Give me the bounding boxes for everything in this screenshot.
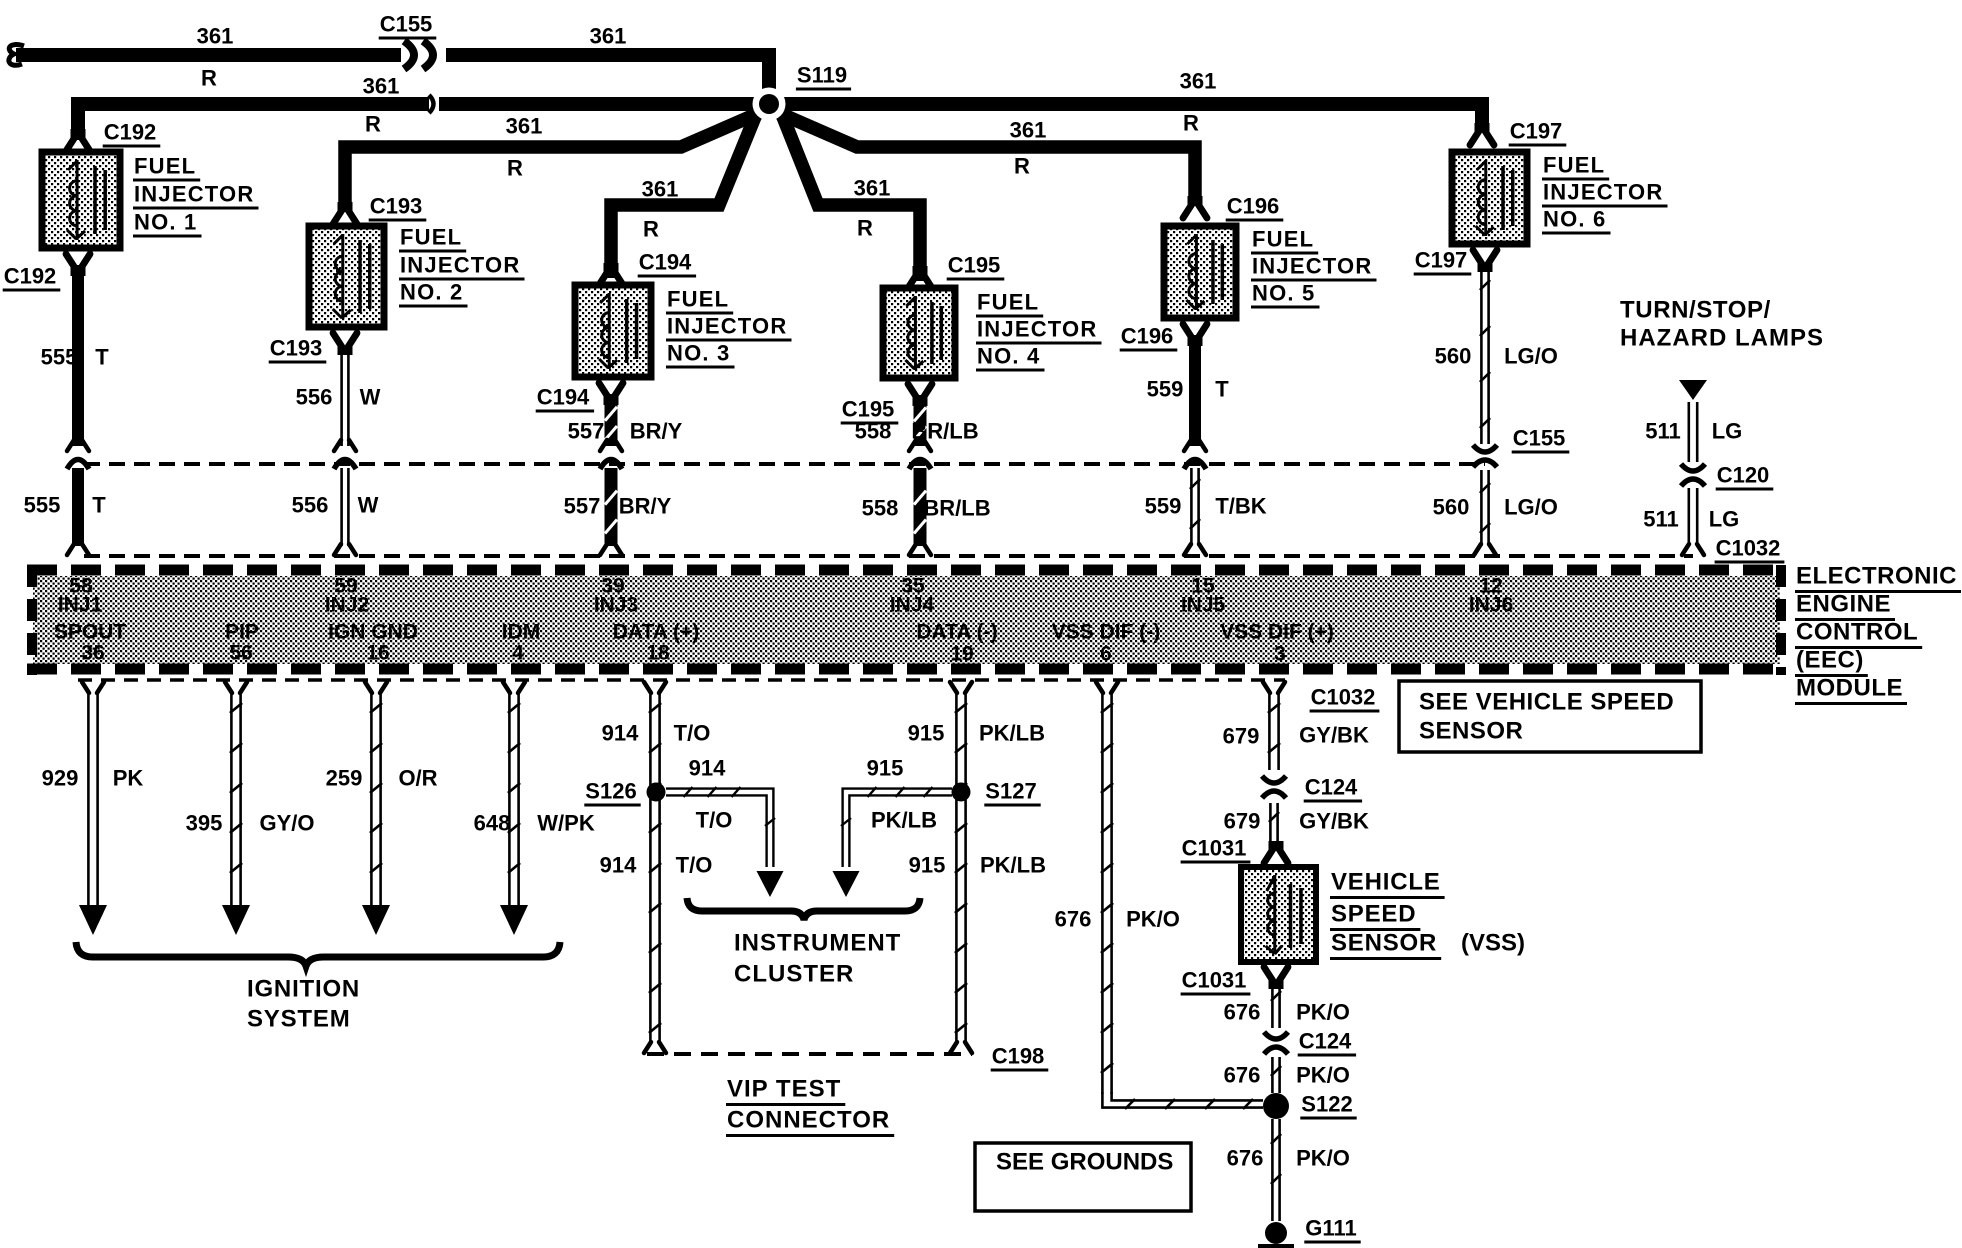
svg-text:TURN/STOP/: TURN/STOP/ [1620,297,1771,324]
svg-text:C198: C198 [992,1044,1045,1069]
svg-text:C192: C192 [4,264,57,289]
svg-text:SEE GROUNDS: SEE GROUNDS [996,1149,1173,1176]
svg-text:BR/LB: BR/LB [923,496,990,521]
svg-text:676: 676 [1224,1000,1261,1025]
svg-text:PK: PK [113,766,144,791]
svg-text:FUEL: FUEL [1543,153,1605,178]
svg-text:SPEED: SPEED [1331,901,1416,928]
svg-text:CLUSTER: CLUSTER [734,961,854,988]
svg-text:DATA (-): DATA (-) [916,621,997,644]
svg-text:R: R [643,217,659,242]
svg-text:915: 915 [908,721,945,746]
svg-text:IGNITION: IGNITION [247,976,360,1003]
svg-text:556: 556 [292,493,329,518]
svg-text:C193: C193 [370,194,423,219]
svg-text:INJ2: INJ2 [325,594,369,617]
svg-text:C197: C197 [1415,248,1468,273]
svg-text:NO. 4: NO. 4 [977,344,1040,369]
svg-text:555: 555 [24,493,61,518]
svg-text:PK/LB: PK/LB [979,721,1045,746]
svg-text:FUEL: FUEL [1252,227,1314,252]
svg-text:LG: LG [1712,419,1743,444]
svg-text:555: 555 [41,345,78,370]
svg-text:C1032: C1032 [1311,685,1376,710]
svg-text:56: 56 [229,642,252,665]
svg-text:VEHICLE: VEHICLE [1331,869,1441,896]
svg-text:S127: S127 [985,779,1036,804]
svg-text:6: 6 [1100,643,1112,666]
svg-text:361: 361 [1180,69,1217,94]
svg-text:676: 676 [1227,1146,1264,1171]
svg-text:259: 259 [326,766,363,791]
svg-text:559: 559 [1145,494,1182,519]
svg-text:W/PK: W/PK [537,811,595,836]
svg-text:560: 560 [1433,495,1470,520]
svg-text:361: 361 [363,74,400,99]
svg-text:679: 679 [1223,724,1260,749]
svg-text:LG/O: LG/O [1504,344,1558,369]
svg-text:C1032: C1032 [1716,536,1781,561]
svg-text:560: 560 [1435,344,1472,369]
svg-text:361: 361 [854,176,891,201]
svg-text:PIP: PIP [225,621,259,644]
svg-text:SPOUT: SPOUT [54,621,127,644]
svg-text:R: R [1014,154,1030,179]
svg-text:T/BK: T/BK [1215,494,1266,519]
svg-text:395: 395 [186,811,223,836]
svg-text:R: R [857,216,873,241]
svg-text:SENSOR: SENSOR [1331,930,1437,957]
svg-text:559: 559 [1147,377,1184,402]
svg-text:C192: C192 [104,120,157,145]
svg-text:ELECTRONIC: ELECTRONIC [1796,563,1957,590]
svg-text:T/O: T/O [676,853,713,878]
svg-text:T: T [92,493,106,518]
svg-text:361: 361 [1010,118,1047,143]
svg-text:914: 914 [602,721,639,746]
svg-text:19: 19 [950,643,973,666]
svg-text:C1031: C1031 [1182,836,1247,861]
svg-text:PK/O: PK/O [1296,1146,1350,1171]
svg-text:DATA (+): DATA (+) [613,621,700,644]
svg-text:G111: G111 [1305,1216,1356,1241]
svg-text:679: 679 [1224,809,1261,834]
svg-text:16: 16 [366,642,389,665]
svg-text:CONTROL: CONTROL [1796,619,1918,646]
svg-text:INJECTOR: INJECTOR [400,253,520,278]
svg-text:C1031: C1031 [1182,968,1247,993]
svg-text:GY/BK: GY/BK [1299,723,1369,748]
svg-text:(VSS): (VSS) [1461,930,1525,957]
svg-text:NO. 2: NO. 2 [400,280,463,305]
svg-text:INSTRUMENT: INSTRUMENT [734,930,901,957]
svg-text:C194: C194 [537,385,590,410]
svg-text:NO. 6: NO. 6 [1543,207,1606,232]
svg-text:676: 676 [1055,907,1092,932]
svg-text:361: 361 [506,114,543,139]
svg-text:INJ5: INJ5 [1181,594,1226,617]
svg-text:C194: C194 [639,250,692,275]
svg-text:BR/Y: BR/Y [619,494,672,519]
svg-text:INJECTOR: INJECTOR [1543,180,1663,205]
svg-text:361: 361 [642,177,679,202]
svg-text:557: 557 [564,494,601,519]
svg-text:R: R [201,66,217,91]
svg-text:NO. 3: NO. 3 [667,341,730,366]
svg-text:R: R [1183,111,1199,136]
svg-text:PK/O: PK/O [1296,1063,1350,1088]
svg-text:VSS DIF (-): VSS DIF (-) [1052,621,1161,644]
svg-text:CONNECTOR: CONNECTOR [727,1107,890,1134]
svg-text:INJ4: INJ4 [890,594,935,617]
svg-text:FUEL: FUEL [400,225,462,250]
svg-text:915: 915 [909,853,946,878]
svg-text:361: 361 [197,24,234,49]
svg-text:36: 36 [81,642,104,665]
svg-text:C155: C155 [380,12,433,37]
svg-text:PK/LB: PK/LB [980,853,1046,878]
svg-text:INJ1: INJ1 [58,594,103,617]
svg-text:676: 676 [1224,1063,1261,1088]
svg-text:557: 557 [568,419,605,444]
svg-text:INJECTOR: INJECTOR [134,182,254,207]
svg-text:SEE VEHICLE SPEED: SEE VEHICLE SPEED [1419,689,1674,716]
svg-text:W: W [358,493,379,518]
svg-text:C155: C155 [1513,426,1566,451]
svg-text:915: 915 [867,756,904,781]
svg-text:556: 556 [296,385,333,410]
svg-text:T/O: T/O [674,721,711,746]
svg-text:S122: S122 [1301,1092,1352,1117]
svg-text:ENGINE: ENGINE [1796,591,1891,618]
svg-text:VSS DIF (+): VSS DIF (+) [1220,621,1334,644]
svg-text:4: 4 [512,642,524,665]
svg-text:SYSTEM: SYSTEM [247,1006,350,1033]
svg-text:INJECTOR: INJECTOR [667,314,787,339]
svg-text:S119: S119 [797,63,847,88]
svg-text:914: 914 [600,853,637,878]
svg-text:NO. 5: NO. 5 [1252,281,1315,306]
svg-text:FUEL: FUEL [134,154,196,179]
svg-text:GY/O: GY/O [259,811,314,836]
svg-text:HAZARD LAMPS: HAZARD LAMPS [1620,325,1824,352]
svg-text:LG: LG [1709,507,1740,532]
svg-text:(EEC): (EEC) [1796,647,1864,674]
svg-text:T: T [95,345,109,370]
svg-text:C120: C120 [1717,463,1770,488]
svg-text:S126: S126 [585,779,636,804]
svg-text:648: 648 [474,811,511,836]
svg-text:929: 929 [42,766,79,791]
svg-text:SENSOR: SENSOR [1419,718,1523,745]
svg-text:INJ6: INJ6 [1469,594,1513,617]
svg-text:FUEL: FUEL [977,290,1039,315]
svg-text:PK/O: PK/O [1296,1000,1350,1025]
svg-text:C197: C197 [1510,119,1563,144]
svg-text:C195: C195 [948,253,1001,278]
svg-text:361: 361 [590,24,627,49]
svg-text:T: T [1215,377,1229,402]
svg-text:3: 3 [1274,643,1286,666]
svg-text:MODULE: MODULE [1796,675,1903,702]
svg-text:PK/O: PK/O [1126,907,1180,932]
svg-text:C124: C124 [1299,1029,1352,1054]
svg-text:C124: C124 [1305,775,1358,800]
svg-text:C196: C196 [1227,194,1280,219]
svg-text:C193: C193 [270,336,323,361]
svg-text:914: 914 [689,756,726,781]
svg-text:511: 511 [1645,419,1681,444]
svg-text:R: R [365,112,381,137]
svg-text:IGN GND: IGN GND [328,621,418,644]
svg-text:W: W [360,385,381,410]
svg-text:NO. 1: NO. 1 [134,210,197,235]
svg-text:O/R: O/R [398,766,437,791]
svg-text:LG/O: LG/O [1504,495,1558,520]
svg-text:FUEL: FUEL [667,287,729,312]
svg-text:R: R [507,156,523,181]
svg-text:GY/BK: GY/BK [1299,809,1369,834]
svg-text:C196: C196 [1121,324,1174,349]
svg-text:BR/LB: BR/LB [911,419,978,444]
svg-text:BR/Y: BR/Y [630,419,683,444]
svg-text:INJECTOR: INJECTOR [1252,254,1372,279]
svg-text:VIP TEST: VIP TEST [727,1076,841,1103]
svg-text:511: 511 [1643,507,1679,532]
svg-text:IDM: IDM [502,621,541,644]
svg-text:558: 558 [862,496,899,521]
svg-text:T/O: T/O [696,808,733,833]
svg-text:INJ3: INJ3 [594,594,638,617]
svg-text:18: 18 [646,642,670,665]
svg-text:PK/LB: PK/LB [871,808,937,833]
svg-text:INJECTOR: INJECTOR [977,317,1097,342]
